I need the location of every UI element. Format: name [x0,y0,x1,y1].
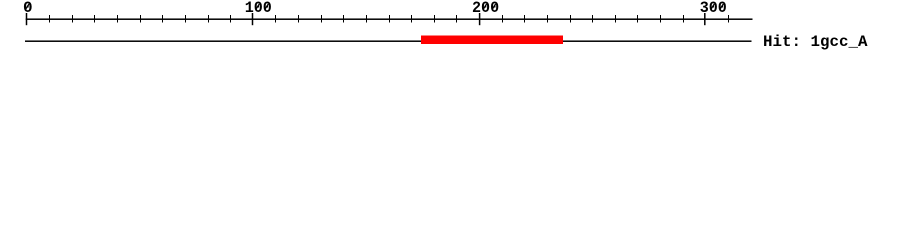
svg-text:200: 200 [472,0,499,17]
background [0,0,900,60]
ruler axis line (0-320) [26,18,753,20]
svg-text:100: 100 [245,0,272,17]
red hit span bar (aligned region ~174-237) [421,36,563,44]
ruler label 300 (slashed zeros) [700,0,727,17]
minor ticks every 10 units [49,15,729,23]
ruler label 0 (slashed zero) [23,0,33,17]
query sequence line [25,40,752,42]
svg-text:Hit: 1gcc_A: Hit: 1gcc_A [763,33,868,51]
major tick 100 [252,13,254,25]
major tick 0 [26,13,28,25]
svg-text:300: 300 [700,0,727,17]
ruler label 200 (slashed zeros) [472,0,499,17]
svg-text:0: 0 [23,0,33,17]
ruler label 100 (slashed zeros) [245,0,272,17]
major tick 300 [704,13,706,25]
major tick 200 [479,13,481,25]
